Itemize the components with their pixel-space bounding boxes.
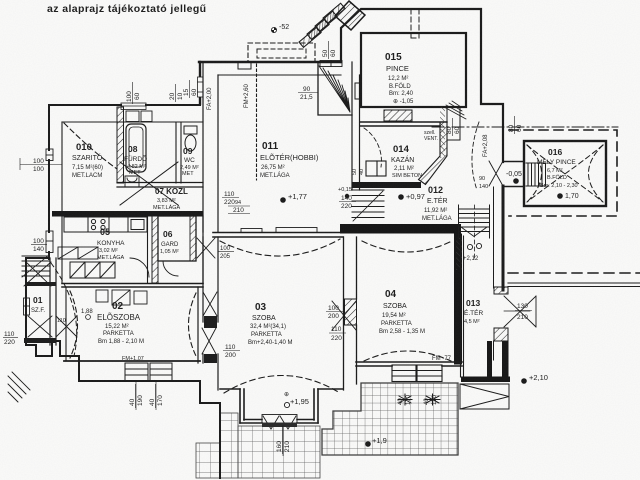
room 04 vault arc bottom xyxy=(364,351,451,361)
wall 03/04 lines xyxy=(344,237,357,390)
window 02 bottom-right xyxy=(150,363,172,381)
window room 01 left xyxy=(24,298,30,315)
dim 40/190 under 04 steps xyxy=(398,394,412,405)
window top wall 100/60 xyxy=(121,103,146,110)
hatched jamb above door 013 xyxy=(494,287,508,294)
door arc 06 xyxy=(163,261,178,276)
furniture room 02 xyxy=(96,290,147,305)
dark wall chunks on 02/03 divider xyxy=(204,316,217,328)
entrance step-window left below 04 xyxy=(392,365,416,382)
column bump top wall 011 xyxy=(238,62,251,69)
water heater boxes above bathroom xyxy=(126,111,139,122)
rotated dim 80/60 left duct xyxy=(446,118,461,136)
retaining wall double line right xyxy=(508,283,640,287)
room 06 gardrob box xyxy=(158,216,196,261)
outer wall: stair shaft up to entrance xyxy=(341,9,503,162)
right wall dark segment below door 013 xyxy=(502,341,509,380)
hatched jamb door 03/04 xyxy=(345,299,357,325)
room 014 bottom dark wall xyxy=(352,182,421,188)
side stair down (north-south) xyxy=(459,205,490,238)
bottom wall room 02 double line xyxy=(64,360,200,362)
window left 100/140 xyxy=(46,231,53,253)
rotated dim 40/170 bottom left xyxy=(149,384,164,408)
dashed enclosure around 016 xyxy=(509,130,617,216)
dim 110/220 left of 01 xyxy=(3,331,18,346)
hob with burners xyxy=(88,217,109,232)
inner face of right wall xyxy=(493,187,495,360)
rotated text FA+2,00 xyxy=(207,87,213,110)
WC bowl xyxy=(185,135,196,151)
section dash-dot line xyxy=(432,126,618,128)
level mark -0,05 xyxy=(506,171,522,184)
room 014 top wall xyxy=(360,122,447,126)
dim 100/140 left xyxy=(31,238,47,253)
flower symbol left xyxy=(398,394,412,405)
door X 02/03 xyxy=(202,328,216,354)
back door X xyxy=(489,161,503,186)
dim 130/210 door 013 xyxy=(515,303,532,321)
wall 08/09 double xyxy=(176,122,181,183)
dim 110/220 in 011 xyxy=(222,191,239,206)
wall 02 top double dark xyxy=(62,284,203,288)
door X 03/04 xyxy=(332,301,356,330)
wall 02/03 divider lines xyxy=(198,237,218,390)
level mark +2,10 xyxy=(521,373,548,384)
exterior door 013 X-swing xyxy=(504,296,536,327)
WC cistern xyxy=(184,126,197,134)
dim line 130/210 xyxy=(504,310,530,312)
corridor 07 cross diagonals (stair/door swings) xyxy=(120,162,178,205)
hatched jamb below door 013 xyxy=(494,328,508,341)
room 02 left wall line xyxy=(65,288,67,360)
kitchen low cabinets row 2 xyxy=(58,247,98,259)
level mark 1,88 room 02 xyxy=(81,309,93,319)
bottom-left stepped boundary xyxy=(26,341,220,478)
room 016 walls xyxy=(524,141,606,206)
dim 94 room 07 xyxy=(235,200,241,206)
room 02 vault arc right xyxy=(189,293,197,356)
hatched wall below 015 xyxy=(384,110,412,121)
door X room 01 bottom xyxy=(28,316,52,337)
porch window with arrows xyxy=(262,415,297,430)
window 02 bottom-left xyxy=(125,363,148,381)
hatch marks on 04/013 wall xyxy=(456,237,462,270)
window left 100/100 xyxy=(46,149,53,161)
room 04 bottom wall xyxy=(356,362,462,366)
dim 50/40 boiler xyxy=(352,169,365,175)
left inner wall line xyxy=(61,122,63,211)
porch room 03: left wall double xyxy=(240,389,244,423)
pilaster bumps on 03 top wall xyxy=(241,229,262,233)
level mark +0,15 xyxy=(338,187,352,198)
inner line top wall 011 xyxy=(218,74,341,76)
dim extension line porch xyxy=(282,425,284,456)
top wall inner line xyxy=(62,121,203,123)
left outer wall with window gaps xyxy=(48,105,50,259)
chimney diamond hatched xyxy=(335,1,365,30)
room 010 bottom vault dashed diagonal xyxy=(64,123,117,169)
room 015 walls xyxy=(361,33,466,107)
room 015 left bump xyxy=(355,83,361,99)
lobby door swing X xyxy=(24,262,51,286)
duct/shaft right of 014 xyxy=(447,107,460,140)
corridor to 016 xyxy=(503,162,524,187)
wall corner bar left of 013 bottom xyxy=(487,341,492,378)
left inner wall lower xyxy=(61,216,63,283)
sink xyxy=(128,217,147,232)
dim 100/200 door 03/04 xyxy=(326,305,343,320)
room 01 bottom wall xyxy=(24,338,56,343)
outer wall: top of room 011 xyxy=(199,61,341,63)
kitchen right wall line xyxy=(147,216,149,283)
room 03 top wall xyxy=(213,233,343,238)
room 015 right wall gap line xyxy=(465,33,467,107)
wall 011 left double xyxy=(203,62,218,283)
kitchen lower cabinets with diagonals xyxy=(70,262,115,278)
level mark +2,12 in 013 xyxy=(463,243,482,262)
flower symbol right xyxy=(425,394,440,405)
bathroom bottom wall double xyxy=(117,183,203,188)
room 03 vault arch bottom (over porch) xyxy=(224,376,340,394)
wall 05 right hatched strip xyxy=(152,216,158,283)
dim 90/21,5 near stair xyxy=(298,86,318,101)
rotated dim 100/60 top wall xyxy=(126,82,141,104)
level mark 1,70 in 016 xyxy=(557,193,579,200)
stair center dashed line xyxy=(474,205,476,260)
dim 100/100 left xyxy=(20,158,62,173)
dim 110/200 below door 02/03 xyxy=(223,344,240,359)
entrance outdoor steps (diagonal) xyxy=(299,3,345,47)
hatched chimney wall strip xyxy=(440,107,445,158)
upper flight treads right of 015 xyxy=(444,101,466,119)
window in top wall at stair xyxy=(320,61,342,67)
canopy triangle right xyxy=(460,384,509,409)
winder fan treads xyxy=(319,66,350,112)
rotated dim 50/60 at stair window xyxy=(322,41,337,59)
door X 07 to 03 xyxy=(197,238,215,258)
door X room 01/02 xyxy=(56,316,77,337)
room 01 right wall double xyxy=(50,258,56,345)
winder stair top: left rail xyxy=(318,62,352,115)
terrace tile grid left (below room 03 porch) xyxy=(196,413,320,478)
dim extension lines bottom 02 xyxy=(136,382,156,410)
room 04 right wall dark xyxy=(454,234,462,365)
bathtub xyxy=(126,124,146,172)
door X 02 to 011 corridor xyxy=(203,292,217,316)
stair shaft wall 011/014 xyxy=(352,62,360,190)
dark band wall 012/04 xyxy=(340,224,461,234)
bottom-right corner dark wall xyxy=(461,377,510,383)
room 014 hatched right wall with chamfer xyxy=(419,122,448,185)
wall 010/08 hatched strip xyxy=(117,107,124,183)
porch room 03: right wall double xyxy=(314,389,318,423)
chimney flue dashed above 015 xyxy=(411,9,419,38)
level mark -52 xyxy=(271,24,289,33)
level mark +1,95 xyxy=(284,392,309,408)
rotated dim 160/210 porch xyxy=(276,426,291,454)
rotated dim 80/60 right xyxy=(508,116,523,134)
stair down to 016 xyxy=(526,163,546,186)
porch room 03: bottom wall with window xyxy=(240,420,318,424)
level mark +1,9 terrace xyxy=(365,436,387,447)
corridor 07 bottom dark wall band xyxy=(52,211,203,217)
wall stubs beside porch xyxy=(220,388,343,390)
outdoor steps left of kitchen xyxy=(22,255,49,277)
dim 110/220 stair 012 xyxy=(329,326,346,342)
room 04 vault arc top xyxy=(362,241,452,252)
wall 02/03 divider upper xyxy=(202,216,204,232)
outer wall step at kitchen level xyxy=(26,258,49,345)
dim 210 room 010 xyxy=(228,206,250,214)
outer wall: step up to 011 level xyxy=(199,62,201,104)
door arc 014 xyxy=(364,128,381,167)
vault arc room 01 xyxy=(51,263,77,356)
rotated dim 20/10 xyxy=(169,84,184,102)
room 013 left wall xyxy=(461,236,464,377)
entrance step-window right below 04 xyxy=(417,365,442,382)
door glyph on west wall of 011 xyxy=(198,77,204,97)
dim 140/220 right in 011 xyxy=(339,195,356,210)
level mark +0,97 in 012 xyxy=(398,192,425,201)
insulation dashed line in 011 xyxy=(256,64,258,180)
room 03 vault arc top xyxy=(220,239,340,256)
room 06 right hatched strip xyxy=(190,216,196,261)
rotated dim 40/190 bottom left xyxy=(129,384,144,408)
door arc kitchen xyxy=(130,258,149,277)
rotated text FM+2,60 xyxy=(244,83,250,108)
washbasin 08 xyxy=(125,176,139,187)
room 01 top wall xyxy=(25,282,56,286)
terrace tile grid right (below room 04) xyxy=(322,383,458,455)
ramp hatch bottom-left xyxy=(8,372,30,402)
dashed property line right xyxy=(508,272,640,274)
dim 100/205 door to 03 xyxy=(218,246,234,260)
stairs 012 down to 011 xyxy=(352,190,384,221)
rotated text FA+2,08 xyxy=(483,134,489,157)
level mark +1,77 in 011 xyxy=(280,192,307,203)
outer wall right: below 016-corridor door xyxy=(502,186,505,290)
back door swing dashed arc xyxy=(472,122,479,190)
outer wall: top-left wing, outer line xyxy=(49,104,200,106)
boiler in 014 xyxy=(366,161,386,176)
rotated dim 15/60 xyxy=(183,80,198,98)
dashed roof overhang rectangles above 011 xyxy=(248,43,315,62)
room 016 cross-vault dashed arcs xyxy=(527,145,603,202)
dim 90/140 back door xyxy=(479,176,488,190)
room 02 vault arc left xyxy=(70,291,78,358)
kitchen counters top row xyxy=(64,217,88,232)
